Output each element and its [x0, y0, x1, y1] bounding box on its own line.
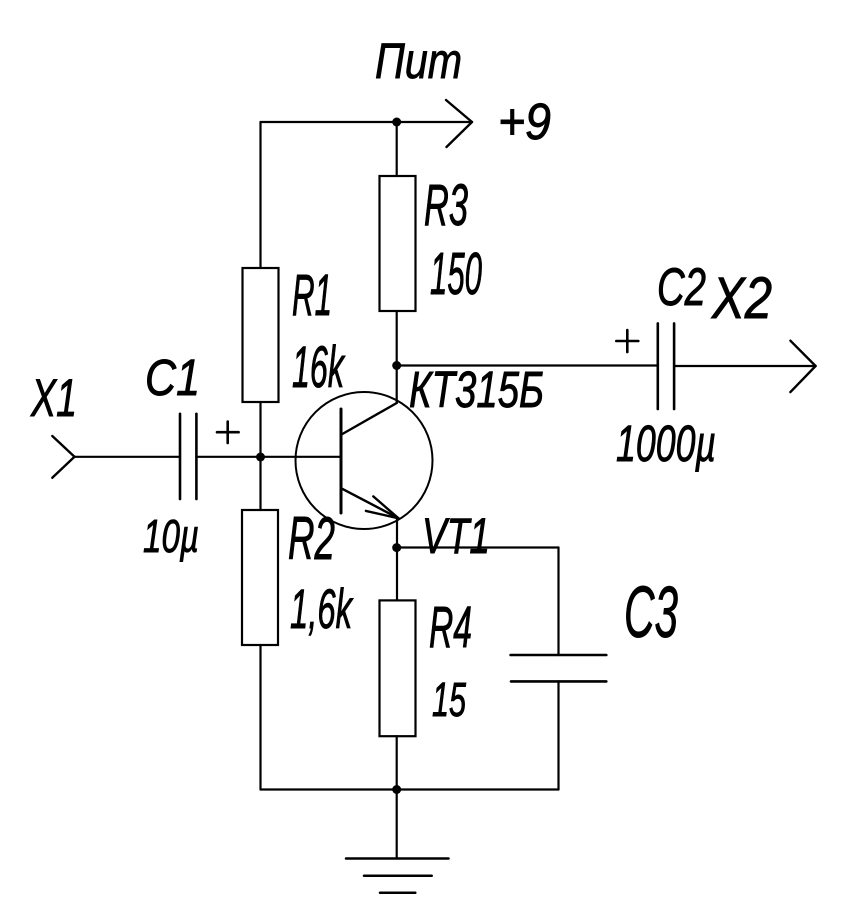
wire R2 to bottom rail [259, 645, 261, 790]
svg-text:+9: +9 [498, 93, 551, 150]
svg-text:X2: X2 [710, 266, 772, 331]
plus sign C1 [217, 422, 239, 444]
plus sign C2 [616, 330, 638, 352]
wire emitter to C3 [397, 546, 559, 548]
svg-text:1000µ: 1000µ [616, 415, 716, 472]
wire bottom rail [261, 788, 559, 790]
connector X1 [52, 436, 74, 478]
svg-text:C2: C2 [657, 258, 706, 317]
node emitter [392, 543, 401, 552]
wire C3 bottom [557, 681, 559, 789]
wire C1 to base [196, 456, 341, 458]
wire C3 top [557, 548, 559, 656]
svg-text:16k: 16k [292, 335, 346, 400]
wire power rail [261, 121, 471, 123]
wire collector to C2 [397, 364, 658, 366]
wire R4 to bottom rail [396, 736, 398, 789]
ground [346, 859, 449, 893]
wire left drop to R1 [259, 122, 261, 268]
wire emitter down [396, 518, 398, 600]
node collector [392, 361, 401, 370]
svg-text:R3: R3 [424, 173, 468, 238]
wire input to C1 [75, 456, 181, 458]
transistor VT1 [296, 392, 433, 529]
node bottom rail [392, 785, 401, 794]
resistor R1 [243, 268, 279, 402]
resistor R4 [380, 600, 416, 736]
wire R3 to collector [396, 311, 398, 403]
node power rail [392, 118, 401, 127]
svg-text:X1: X1 [30, 369, 77, 428]
svg-text:150: 150 [430, 241, 482, 307]
wire R1 to base node [259, 402, 261, 510]
connector X2 [790, 341, 815, 392]
svg-text:C3: C3 [624, 573, 678, 653]
svg-text:15: 15 [432, 674, 466, 727]
wire C2 to output [674, 365, 815, 367]
resistor R3 [380, 176, 416, 311]
capacitor C3 [511, 655, 607, 681]
svg-text:Пит: Пит [375, 33, 462, 89]
power arrow Пит [446, 100, 472, 147]
svg-text:КТ315Б: КТ315Б [409, 361, 544, 418]
svg-text:R2: R2 [288, 505, 335, 572]
wire ground stem [396, 790, 398, 859]
svg-text:1,6k: 1,6k [290, 577, 354, 640]
resistor R2 [242, 510, 278, 645]
wire rail to R3 [396, 122, 398, 176]
svg-text:10µ: 10µ [143, 510, 199, 562]
svg-text:R4: R4 [429, 595, 472, 660]
capacitor C2 [658, 323, 674, 409]
svg-text:VT1: VT1 [422, 508, 490, 564]
node base [256, 453, 265, 462]
svg-text:R1: R1 [292, 263, 332, 328]
capacitor C1 [180, 414, 196, 499]
svg-text:C1: C1 [145, 349, 200, 406]
